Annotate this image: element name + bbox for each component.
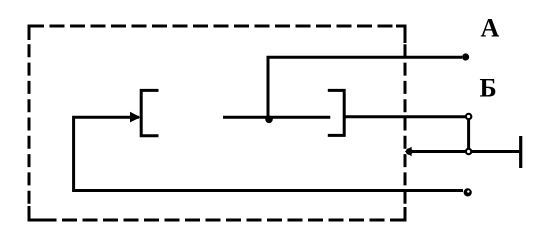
wire link between terminals xyxy=(467,117,470,152)
terminal dot end of lead A xyxy=(462,53,469,60)
terminal circle Б upper xyxy=(466,114,471,119)
terminal circle bottom xyxy=(464,188,472,196)
box corner top-right xyxy=(396,26,405,43)
box corner bottom-left xyxy=(29,206,43,220)
arrowhead of V1 gate xyxy=(130,112,141,123)
transistor V1 bracket electrode xyxy=(141,90,158,135)
dashed enclosure box top edge xyxy=(29,25,405,28)
dashed enclosure box right edge xyxy=(404,26,407,220)
wire gate V1 + left drop + bottom return wire xyxy=(74,117,463,190)
wire node A riser and horizontal lead xyxy=(268,57,462,118)
wire gate V2 xyxy=(223,116,330,119)
wire middle output row xyxy=(410,150,519,153)
svg-text:А: А xyxy=(481,13,500,42)
arrowhead on middle row at box edge xyxy=(405,147,412,157)
terminal end bar xyxy=(519,136,522,168)
box corner top-left xyxy=(29,26,42,40)
wire V2 output to terminal xyxy=(344,115,465,118)
box corner bottom-right xyxy=(392,207,405,220)
junction dot node A xyxy=(265,116,273,124)
transistor V2 bracket electrode xyxy=(328,90,344,135)
dashed enclosure box left edge xyxy=(28,26,31,220)
dashed enclosure box bottom edge xyxy=(29,219,405,222)
terminal circle Б lower xyxy=(466,149,471,154)
svg-text:Б: Б xyxy=(480,73,497,102)
